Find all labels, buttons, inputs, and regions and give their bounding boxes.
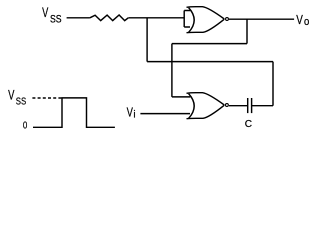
svg-text:V: V <box>296 12 303 27</box>
waveform 0 label <box>23 121 28 132</box>
wire resistor to gate 1 input <box>128 17 184 19</box>
nor-gate U2 back arc <box>189 94 195 119</box>
node VSS label (top left) <box>42 5 62 25</box>
wire feedback left vertical <box>171 44 173 97</box>
wire VSS to resistor <box>67 17 90 19</box>
nor-gate U1 top edge <box>187 7 225 19</box>
nor-gate U1 bubble <box>226 18 229 21</box>
node Vi label <box>127 105 136 121</box>
nor-gate U2 bottom edge <box>187 105 225 119</box>
nor-gate U1 input tie bar <box>184 11 190 28</box>
wire feedback lower horizontal <box>147 61 273 63</box>
capacitor C value label <box>245 118 253 130</box>
wire output junction down <box>246 19 248 43</box>
wire gate 2 output to capacitor <box>229 105 248 107</box>
wire junction node A down <box>146 18 148 62</box>
nor-gate U2 top edge <box>187 93 225 105</box>
wire capacitor to feedback <box>252 105 273 107</box>
svg-text:V: V <box>127 105 134 120</box>
nor-gate U1 back arc <box>189 8 195 33</box>
wire feedback right vertical <box>272 62 274 106</box>
svg-text:V: V <box>42 5 48 20</box>
capacitor C right plate <box>251 98 253 113</box>
node Vo label <box>296 12 309 28</box>
svg-text:0: 0 <box>23 121 28 132</box>
wire feedback upper horizontal <box>172 43 247 45</box>
svg-text:SS: SS <box>50 14 62 26</box>
wire gate 1 output to Vo <box>229 18 294 20</box>
svg-text:o: o <box>304 16 309 28</box>
waveform VSS dashed level <box>32 97 61 99</box>
nor-gate U1 bottom edge <box>187 19 225 33</box>
waveform input pulse <box>33 98 115 127</box>
capacitor C left plate <box>247 98 249 113</box>
node VSS label (waveform) <box>8 87 26 107</box>
resistor R <box>90 15 128 21</box>
svg-text:i: i <box>133 110 135 121</box>
wire gate 2 top input <box>172 96 190 98</box>
svg-text:V: V <box>8 87 14 102</box>
wire Vi to gate 2 bottom input <box>140 113 190 115</box>
svg-text:C: C <box>245 118 253 130</box>
nor-gate U2 bubble <box>225 104 228 107</box>
svg-text:SS: SS <box>16 97 27 108</box>
